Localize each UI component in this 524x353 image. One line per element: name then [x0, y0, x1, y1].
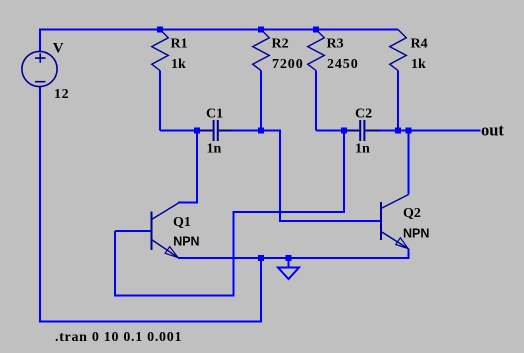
wire Q2 collector up to out row — [408, 131, 410, 195]
svg-text:1n: 1n — [207, 142, 222, 157]
ground symbol — [278, 268, 299, 280]
svg-text:C2: C2 — [355, 107, 372, 122]
node junction R3 top — [313, 27, 319, 33]
transistor Q2 body — [380, 202, 382, 240]
svg-text:2450: 2450 — [327, 57, 359, 72]
voltage source V circle — [22, 51, 57, 86]
node junction emitter row to ground — [286, 255, 292, 261]
svg-text:out: out — [481, 120, 504, 139]
wire Q1 base cross-coupling net to C2 row — [115, 131, 344, 296]
node junction R1 top — [157, 27, 163, 33]
resistor R4 zigzag — [390, 30, 407, 71]
svg-text:12: 12 — [54, 87, 69, 102]
wire R2 bottom lead down to C1 row — [260, 71, 262, 131]
wire R3 bottom lead down to C2 row — [315, 71, 317, 131]
node junction R2 bottom / C1 — [258, 128, 264, 134]
wire Q1 collector elbow up to C1 row — [178, 131, 197, 203]
wire R4 bottom lead down to out row — [397, 71, 399, 131]
node junction R4 bottom / out row — [395, 128, 401, 134]
svg-text:Q2: Q2 — [403, 206, 421, 221]
svg-text:C1: C1 — [206, 107, 223, 122]
capacitor C2 plates and leads — [360, 120, 364, 141]
svg-text:1n: 1n — [355, 142, 370, 157]
svg-text:.tran 0 10 0.1 0.001: .tran 0 10 0.1 0.001 — [55, 330, 182, 345]
resistor R2 zigzag — [253, 30, 270, 71]
transistor Q1 emitter arrow — [165, 247, 178, 258]
resistor R1 zigzag — [152, 30, 169, 71]
voltage source plus sign — [35, 53, 46, 63]
wire C2 row right segment to out — [380, 130, 481, 132]
voltage source minus sign — [35, 81, 46, 83]
wire V source bottom lead, bottom rail, riser to emitter row — [40, 87, 261, 322]
wire C1 row left segment — [160, 130, 200, 132]
node junction R2 top — [258, 27, 264, 33]
svg-text:R1: R1 — [171, 37, 188, 52]
svg-text:R3: R3 — [327, 36, 344, 51]
wire C2 row left segment — [316, 130, 347, 132]
wire ground stem — [288, 258, 290, 268]
capacitor C1 plates and leads — [214, 120, 218, 141]
wire top rail with V source top lead — [40, 30, 398, 52]
transistor Q2 emitter arrow — [396, 238, 408, 249]
transistor Q1 body — [151, 212, 153, 251]
svg-text:1k: 1k — [411, 57, 426, 72]
svg-text:V: V — [53, 41, 64, 57]
wire R1 bottom lead down to C1 row — [159, 71, 161, 131]
svg-text:Q1: Q1 — [173, 215, 191, 230]
node junction Q2 collector / out row — [406, 128, 412, 134]
svg-text:1k: 1k — [171, 57, 186, 72]
svg-text:R2: R2 — [272, 36, 289, 51]
node junction C2 left / Q1 base net — [341, 128, 347, 134]
wire C1 row right segment, down to Q2 base, Q2 base wire — [233, 131, 382, 222]
node junction Q1 collector / C1 — [194, 128, 200, 134]
node junction emitter row to bottom rail — [258, 255, 264, 261]
svg-text:7200: 7200 — [272, 57, 304, 72]
svg-text:R4: R4 — [411, 36, 428, 51]
wire Q1 base lead — [115, 230, 152, 232]
svg-text:NPN: NPN — [403, 227, 429, 241]
svg-text:NPN: NPN — [173, 235, 199, 249]
wire emitter row with Q2 emitter stub — [178, 249, 409, 259]
resistor R3 zigzag — [308, 30, 325, 71]
